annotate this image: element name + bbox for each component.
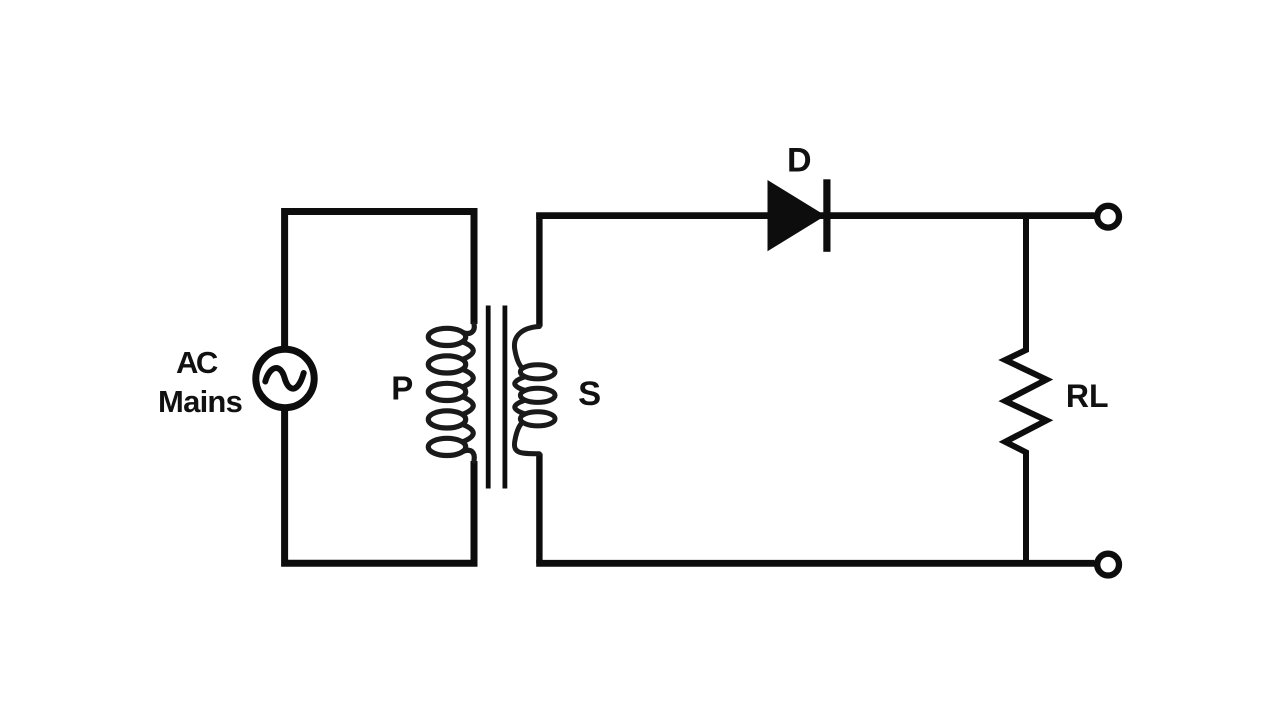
wire top rail (secondary to output terminal) [536,212,1094,219]
svg-text:D: D [787,142,812,180]
svg-text:P: P [391,370,413,407]
wire primary loop top: left vertical upper + top rail + primary vertical upper [285,212,474,349]
diode D cathode bar [823,179,830,252]
resistor RL branch: vertical + zigzag + vertical [1005,216,1046,564]
svg-text:RL: RL [1066,378,1109,414]
wire primary loop bottom: left vertical lower + bottom rail + primary vertical lower [285,410,474,564]
svg-text:AC: AC [176,345,218,380]
output terminal bottom (open circle) [1097,554,1119,576]
diode D triangle (anode) [768,180,826,251]
svg-text:S: S [578,375,601,413]
output terminal top (open circle) [1097,206,1119,228]
wire secondary vertical upper [536,213,542,327]
wire bottom rail (secondary to output terminal) [536,560,1094,567]
AC source sine symbol [265,368,303,389]
transformer core lines [488,306,505,489]
wire secondary vertical lower [536,454,542,564]
svg-text:Mains: Mains [158,384,242,419]
transformer primary coil P (5 loops) [428,324,474,461]
AC source circle [256,349,314,407]
transformer secondary coil S (3 loops) [514,327,555,454]
